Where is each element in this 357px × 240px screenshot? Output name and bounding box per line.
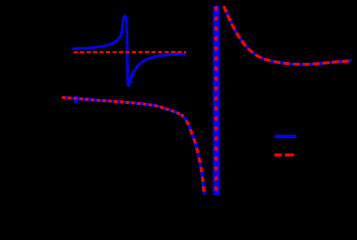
inset: red dashed flat line [74, 51, 187, 54]
main curve: red dashed left branch (steep dive part) [181, 115, 204, 195]
pole jump: blue vertical line [213, 6, 219, 195]
legend: red dashed sample [274, 153, 281, 156]
main curve: red dashed left branch (flat part) [62, 98, 181, 115]
main curve: blue narrow resonance spike marker [74, 96, 78, 103]
main curve: red dashed right branch [224, 6, 351, 64]
pole jump: red dashed vertical line [214, 7, 217, 196]
legend: blue solid sample [275, 135, 297, 139]
inset: blue solid dispersion curve [72, 16, 186, 86]
main curve: blue solid right branch [224, 6, 351, 64]
main curve: blue solid left branch [62, 98, 204, 196]
